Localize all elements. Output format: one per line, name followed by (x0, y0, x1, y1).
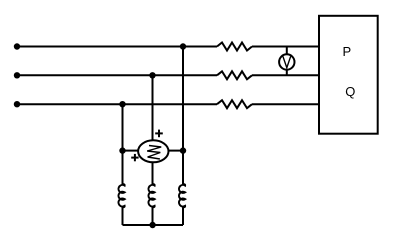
wire voltmeter top lead (286, 47, 288, 55)
svg-text:Q: Q (345, 84, 355, 99)
wattmeter W1 ellipse (138, 140, 168, 162)
junction node phase A drop (180, 43, 186, 49)
wire phase B right segment (252, 74, 319, 76)
resistor R1 (217, 43, 252, 51)
load box P Q (319, 16, 378, 134)
junction node wattmeter left (119, 147, 125, 153)
inductor L3 (179, 184, 185, 207)
terminal dot phase B (14, 72, 20, 78)
inductor L2 (148, 184, 154, 207)
wire below L2 (152, 207, 154, 225)
wire neutral bottom rail (123, 224, 184, 226)
voltmeter V1 circle (279, 54, 294, 69)
wire below L3 (182, 207, 184, 225)
wire wattmeter left lead (123, 150, 139, 152)
wire wattmeter right lead (168, 150, 183, 152)
wire below L1 (122, 207, 124, 225)
wire voltmeter bottom lead (286, 70, 288, 76)
terminal dot phase C (14, 101, 20, 107)
wire wattmeter bottom lead (152, 162, 154, 184)
wire vertical drop from phase B to wattmeter (152, 75, 154, 140)
junction node wattmeter right (180, 147, 186, 153)
wattmeter W glyph (rotated zigzag) (147, 146, 161, 160)
wire phase A right segment (252, 46, 319, 48)
junction node neutral star point (149, 222, 155, 228)
voltmeter V glyph (283, 56, 291, 67)
wattmeter polarity mark + (left) (131, 154, 138, 161)
wire vertical drop from phase A (182, 47, 184, 185)
svg-text:P: P (342, 44, 351, 59)
wire phase C right segment (252, 103, 319, 105)
wire phase B left segment (17, 74, 217, 76)
terminal dot phase A (14, 43, 20, 49)
wire phase C left segment (17, 103, 217, 105)
wire phase A left segment (17, 46, 217, 48)
junction node phase C drop (119, 101, 125, 107)
resistor R2 (217, 71, 252, 79)
inductor L1 (118, 184, 124, 207)
resistor R3 (217, 100, 252, 108)
wattmeter polarity mark + (top) (155, 130, 163, 138)
wire vertical drop from phase C (122, 104, 124, 184)
junction node phase B drop (149, 72, 155, 78)
